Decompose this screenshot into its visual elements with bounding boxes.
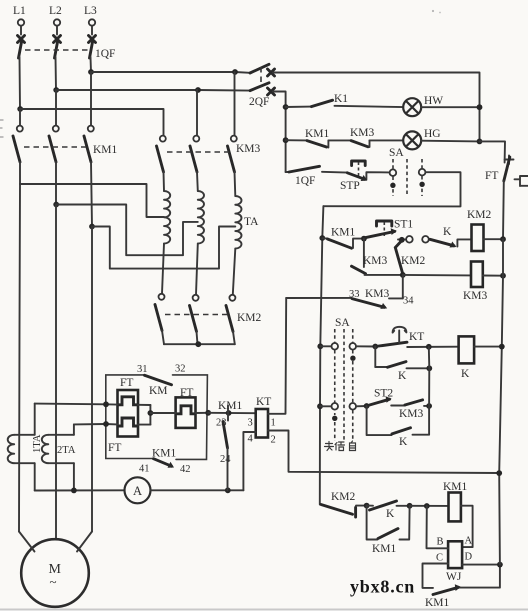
- node L2 tap: [53, 87, 59, 93]
- wire HG node to right bus down: [480, 141, 506, 162]
- node ST1 branch: [361, 236, 367, 242]
- svg-text:KM3: KM3: [365, 288, 390, 300]
- wire KT terminal 2 to rail: [268, 431, 499, 474]
- svg-text:TA: TA: [244, 216, 259, 228]
- contact KM2 bottom: [321, 505, 367, 518]
- contact KM 31-32: [145, 375, 172, 385]
- speck artifacts: [432, 10, 434, 12]
- contact KM3 33-34 row: [286, 275, 403, 307]
- wire KM3 coil to bus: [483, 275, 503, 277]
- wire phase L2 vertical to node: [55, 57, 58, 90]
- wire 1TA secondary to FT: [35, 403, 106, 406]
- wire star bar: [164, 343, 235, 345]
- KM2 linkage dashed: [165, 314, 228, 316]
- autotransformer TA coil 1: [164, 191, 170, 244]
- svg-text:D: D: [465, 552, 473, 563]
- contact K parallel ST2: [367, 406, 430, 435]
- svg-text:KM3: KM3: [236, 143, 261, 155]
- ammeter A: [125, 477, 151, 503]
- wire L2 phase down: [55, 90, 57, 125]
- contactor KM1 main pole 2: [49, 126, 59, 205]
- wire L3 phase down to motor: [91, 227, 93, 532]
- relay WJ box: [448, 541, 462, 568]
- node heater join: [148, 410, 154, 416]
- contact KM1 23-24: [223, 406, 228, 491]
- contact KM2 hold branch: [395, 241, 403, 275]
- heater box FT1: [118, 390, 139, 437]
- breaker 1QF pole 2: [54, 26, 61, 58]
- svg-text:3: 3: [248, 418, 253, 429]
- wire motor lead 3: [77, 532, 92, 552]
- svg-text:L3: L3: [84, 5, 97, 17]
- wire heater2: [106, 423, 151, 426]
- node KM2 branch: [399, 237, 405, 243]
- svg-text:42: 42: [180, 464, 191, 475]
- svg-text:1: 1: [271, 418, 276, 429]
- node after FT: [205, 410, 211, 416]
- wire heater1: [106, 403, 151, 406]
- node ST2 branch: [364, 403, 370, 409]
- button ST1: [366, 221, 395, 238]
- svg-text:K: K: [443, 226, 452, 238]
- control bus left vertical: [320, 206, 324, 504]
- svg-text:KT: KT: [409, 331, 424, 343]
- wire K parallel up: [428, 347, 431, 369]
- svg-text:L1: L1: [13, 5, 26, 17]
- lamp HW: [403, 98, 421, 116]
- svg-text:FT: FT: [120, 377, 133, 389]
- node ammeter line: [225, 487, 231, 493]
- wire WJ C to KM1 NC: [423, 564, 449, 588]
- node K1 row: [283, 104, 289, 110]
- contact K parallel KT: [375, 347, 429, 369]
- wire HG to bus: [421, 140, 479, 143]
- contact KM3 st2 row: [405, 400, 429, 406]
- svg-text:KM2: KM2: [467, 209, 492, 221]
- contact KM3 aux row2: [328, 140, 369, 147]
- svg-text:KM1: KM1: [331, 227, 356, 239]
- wire to KM1 coil: [410, 505, 449, 507]
- autotransformer TA coil 2: [198, 191, 204, 244]
- contact KM1 41-42: [154, 459, 172, 467]
- breaker 2QF pole 2: [250, 83, 275, 95]
- wire st2 node up: [428, 368, 430, 406]
- wire heater join bar: [149, 405, 151, 425]
- wire SA to KT contact: [356, 345, 375, 347]
- wire L2 row to 2QF: [56, 89, 250, 92]
- svg-text:32: 32: [175, 364, 186, 375]
- svg-text:KM1: KM1: [372, 543, 397, 555]
- coil KM2: [472, 225, 484, 252]
- node L3 tap: [88, 69, 94, 75]
- contact K bottom: [367, 501, 410, 510]
- svg-text:1QF: 1QF: [95, 48, 115, 60]
- wire 2QF pole2 down: [273, 92, 286, 173]
- lamp HG: [403, 131, 421, 149]
- wire L1 row to KM3 pole1: [20, 109, 164, 135]
- svg-text:KM1: KM1: [305, 128, 330, 140]
- node KT contact: [372, 344, 378, 350]
- svg-text:KM3: KM3: [399, 408, 424, 420]
- node K/KM1 parallel left: [364, 503, 370, 509]
- wire CT return to ammeter: [35, 489, 125, 491]
- svg-text:31: 31: [137, 364, 148, 375]
- wire 2TA secondary to FT: [74, 423, 106, 425]
- svg-text:ST2: ST2: [374, 388, 393, 400]
- node KM3 bus: [500, 273, 506, 279]
- wire phase L1 vertical to node: [19, 57, 22, 109]
- wire tap L1 to TA1 mid: [20, 184, 164, 217]
- 1QF linkage dashed: [25, 49, 88, 51]
- contact KM1 aux row2: [286, 140, 329, 147]
- svg-text:K: K: [461, 368, 470, 380]
- node st2 right: [426, 403, 432, 409]
- svg-text:KM3: KM3: [350, 127, 375, 139]
- node to KM3 pole3: [232, 69, 238, 75]
- wire WJ B: [427, 506, 449, 548]
- wire SA to ST2: [356, 405, 367, 407]
- wire L1 phase down: [19, 109, 21, 125]
- selector SA lower: [331, 317, 356, 441]
- wire L3 phase down: [90, 72, 92, 125]
- heater element 1: [119, 397, 138, 405]
- motor M: [21, 539, 89, 607]
- svg-text:KM2: KM2: [237, 312, 262, 324]
- svg-text:23: 23: [216, 418, 227, 429]
- svg-text:KM: KM: [149, 385, 168, 397]
- node KM1/KM3 row: [283, 137, 289, 143]
- wire TA1 bottom to KM2 pole1: [162, 244, 164, 294]
- node HG bus: [477, 139, 483, 145]
- node K bottom right: [407, 503, 413, 509]
- svg-text:STP: STP: [340, 180, 360, 192]
- wire to KT: [208, 412, 256, 414]
- wire tap L2 to TA2 mid: [56, 205, 198, 256]
- svg-text:KM1: KM1: [93, 144, 118, 156]
- node KM1-23: [226, 410, 232, 416]
- contact KM1 parallel bottom: [367, 506, 410, 540]
- edge artifact marks: [0, 120, 4, 137]
- svg-text:WJ: WJ: [446, 571, 462, 583]
- svg-text:K: K: [386, 508, 395, 520]
- contact K1: [286, 100, 404, 107]
- svg-text:K: K: [399, 436, 408, 448]
- node FT in 2: [103, 421, 109, 427]
- arrowheads: [168, 175, 461, 591]
- wire WJ D to bus: [462, 564, 500, 566]
- node ST2 row bus: [317, 403, 323, 409]
- svg-text:SA: SA: [389, 147, 404, 159]
- node D bus: [497, 562, 503, 568]
- wire KT terminal 1 up: [268, 298, 286, 414]
- svg-text:KM1: KM1: [443, 481, 468, 493]
- node WJ branch: [424, 503, 430, 509]
- node KT row: [317, 343, 323, 349]
- svg-text:ST1: ST1: [394, 219, 413, 231]
- contactor KM2 star pole 1: [155, 294, 165, 344]
- node hold branch: [400, 272, 406, 278]
- svg-text:KM2: KM2: [401, 255, 426, 267]
- contact 1QF aux: [286, 166, 348, 172]
- heater element 3: [178, 406, 195, 414]
- contactor KM3 main pole 3: [228, 72, 237, 196]
- contactor KM2 star pole 2: [190, 295, 199, 344]
- wire after ST1: [398, 238, 406, 240]
- heater box FT2: [176, 397, 196, 428]
- contactor KM1 main pole 3: [84, 126, 94, 227]
- wire K coil to bus: [474, 346, 502, 348]
- terminal L2: [49, 5, 62, 26]
- svg-text:C: C: [436, 553, 443, 564]
- wire TA3 bottom to KM2 pole3: [233, 249, 236, 295]
- coil KM1: [449, 493, 461, 522]
- svg-text:KM1: KM1: [152, 448, 177, 460]
- node FT in 1: [103, 401, 109, 407]
- wire KM2 coil to bus: [484, 238, 504, 240]
- label hand-stop-auto glyphs: [325, 441, 356, 451]
- svg-text:33: 33: [349, 289, 360, 300]
- wire tap L3 to TA3 mid: [92, 227, 235, 269]
- node 2TA return: [71, 488, 77, 494]
- coil KM3: [471, 262, 483, 288]
- breaker 1QF pole 1: [18, 26, 25, 58]
- wire bus to SA row B: [320, 405, 331, 407]
- thermal contact FT: [503, 156, 514, 240]
- node rail right: [496, 470, 502, 476]
- wire L3 row to 2QF: [91, 71, 250, 74]
- wire hold to KM3 coil: [403, 274, 471, 277]
- wire right bus lower: [498, 473, 501, 564]
- wire motor lead 1: [19, 532, 35, 552]
- wire bus to SA: [320, 345, 331, 347]
- current transformer 1TA: [8, 404, 35, 491]
- svg-text:KM3: KM3: [363, 255, 388, 267]
- breaker 1QF pole 3: [89, 26, 96, 58]
- wire KT contact to K coil: [407, 346, 458, 348]
- svg-text:A: A: [465, 536, 473, 547]
- FT assembly outer box: [106, 375, 208, 460]
- wire TA2 bottom to KM2 pole2: [196, 244, 198, 295]
- breaker 2QF pole 1: [250, 64, 275, 76]
- svg-text:HW: HW: [424, 95, 443, 107]
- svg-text:KM1: KM1: [218, 400, 243, 412]
- node K parallel: [426, 365, 432, 371]
- KM3 linkage dashed: [167, 151, 229, 153]
- button ST2: [370, 399, 405, 405]
- autotransformer TA coil 3: [235, 196, 241, 249]
- button STP: [347, 161, 389, 180]
- contact KM1 NC bottom: [433, 565, 500, 595]
- node start row: [319, 235, 325, 241]
- wire top bus to right: [273, 73, 480, 142]
- svg-text:2TA: 2TA: [57, 445, 76, 456]
- wire phase L3 vertical to node: [90, 57, 93, 72]
- wire KT terminal 4 to ammeter line: [243, 432, 255, 490]
- heater element 2: [119, 418, 138, 426]
- svg-text:ybx8.cn: ybx8.cn: [350, 577, 415, 597]
- right bus down: [499, 239, 503, 473]
- KM1 linkage dashed: [24, 146, 86, 148]
- node star point: [195, 341, 201, 347]
- node K coil bus: [499, 344, 505, 350]
- svg-text:KM3: KM3: [463, 290, 488, 302]
- terminal L3: [84, 5, 97, 26]
- svg-text:SA: SA: [335, 317, 350, 329]
- svg-text:34: 34: [403, 296, 414, 307]
- contactor KM3 main pole 1: [157, 136, 166, 191]
- svg-text:FT: FT: [108, 442, 121, 454]
- svg-text:4: 4: [248, 434, 254, 445]
- node KM2 bus: [500, 236, 506, 242]
- wire SA to return corner: [323, 172, 460, 206]
- contact KM3 hold branch: [352, 239, 403, 275]
- svg-text:A: A: [133, 484, 142, 498]
- svg-text:1QF: 1QF: [295, 175, 315, 187]
- svg-text:KM1: KM1: [425, 597, 450, 609]
- svg-text:2QF: 2QF: [249, 96, 269, 108]
- selector SA upper: [389, 147, 425, 196]
- wire to heater3: [150, 412, 208, 414]
- 2QF linkage: [260, 67, 262, 87]
- contact K to KM2 coil: [429, 239, 472, 246]
- svg-text:41: 41: [139, 464, 150, 475]
- svg-text:B: B: [437, 537, 444, 548]
- contactor KM2 star pole 3: [226, 295, 235, 344]
- contactor KM3 main pole 2: [190, 90, 199, 191]
- wire L1 phase down to CT: [19, 184, 20, 532]
- wire to HG: [370, 139, 404, 141]
- svg-text:K1: K1: [334, 93, 348, 105]
- svg-text:KT: KT: [256, 396, 271, 408]
- coil K: [459, 336, 475, 363]
- wire KM1 coil to WJ A: [461, 506, 473, 547]
- svg-text:~: ~: [50, 574, 57, 589]
- svg-text:K: K: [398, 370, 407, 382]
- wire tap node L2: [53, 202, 59, 208]
- wire L2 phase down to motor: [55, 205, 57, 540]
- svg-text:HG: HG: [424, 128, 441, 140]
- node HW bus: [477, 104, 483, 110]
- relay KT box: [256, 409, 268, 438]
- wire ammeter to KT/KM1 node: [151, 489, 244, 491]
- terminal L1: [13, 5, 26, 26]
- FT heater box right edge: [515, 176, 528, 186]
- svg-text:24: 24: [220, 454, 231, 465]
- svg-text:KM2: KM2: [331, 491, 356, 503]
- node L1 tap: [17, 106, 23, 112]
- svg-text:L2: L2: [49, 5, 62, 17]
- contact KT delayed: [375, 327, 407, 347]
- svg-text:FT: FT: [485, 170, 498, 182]
- bottom separator rule: [0, 609, 528, 611]
- node K coil row: [426, 344, 432, 350]
- selector contact circles: [406, 236, 413, 243]
- wire tap node L3: [89, 224, 95, 230]
- svg-text:FT: FT: [180, 387, 193, 399]
- node to KM3 pole2: [195, 87, 201, 93]
- current transformer 2TA: [42, 424, 74, 490]
- contactor KM1 main pole 1: [13, 126, 23, 184]
- svg-text:2: 2: [271, 435, 276, 446]
- contact KM1 aux start: [322, 238, 364, 248]
- wire HW to bus: [421, 106, 479, 108]
